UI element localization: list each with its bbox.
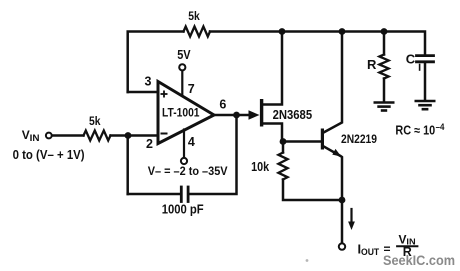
op-amp plus sign bbox=[161, 91, 168, 98]
node junction output bbox=[233, 112, 240, 119]
arrowhead op-amp output to gate bbox=[249, 110, 260, 119]
wire 10k bottom rail bbox=[283, 180, 342, 201]
wire C to ground bbox=[424, 62, 427, 101]
wire inverting node down bbox=[126, 136, 129, 195]
svg-text:–4: –4 bbox=[436, 122, 445, 133]
terminal IOUT bbox=[339, 243, 345, 249]
wire 10k top bbox=[282, 142, 285, 153]
svg-text:0 to (V– + 1V): 0 to (V– + 1V) bbox=[13, 148, 85, 162]
svg-text:5V: 5V bbox=[177, 47, 191, 62]
resistor R4 10k bbox=[278, 153, 287, 180]
terminal V- pin4 bbox=[181, 158, 187, 164]
wire cap bottom right bbox=[190, 115, 237, 194]
wire cap bottom left bbox=[128, 193, 180, 196]
svg-text:3: 3 bbox=[145, 75, 152, 89]
node junction emitter bottom bbox=[339, 197, 346, 204]
svg-text:RC ≈ 10: RC ≈ 10 bbox=[395, 124, 435, 138]
terminal 5V bbox=[179, 64, 185, 70]
wire pin3 input bbox=[128, 91, 158, 94]
svg-text:2N2219: 2N2219 bbox=[341, 132, 377, 146]
svg-text:1000 pF: 1000 pF bbox=[162, 202, 204, 217]
svg-text:2: 2 bbox=[146, 137, 153, 151]
svg-text:6: 6 bbox=[219, 97, 226, 111]
capacitor C2 polarity tick bbox=[419, 65, 421, 71]
capacitor C2 C bbox=[417, 56, 434, 62]
svg-text:OUT: OUT bbox=[361, 247, 380, 257]
ground GND1 (R) bbox=[374, 103, 395, 111]
resistor R3 R bbox=[379, 55, 388, 79]
op-amp U1 LT-1001 triangle bbox=[158, 82, 214, 144]
svg-text:SeekIC.com: SeekIC.com bbox=[383, 252, 455, 268]
wire emitter to output terminal bbox=[341, 200, 344, 243]
wire top rail right bbox=[210, 32, 425, 56]
svg-text:5k: 5k bbox=[188, 9, 200, 23]
wire supply pin7 bbox=[181, 71, 183, 96]
node junction source/10k/base bbox=[280, 138, 287, 145]
terminal VIN bbox=[46, 133, 52, 139]
arrow IOUT current bbox=[350, 209, 352, 224]
transistor Q2 2N2219 base bar bbox=[321, 129, 324, 150]
resistor R1 5k feedback bbox=[184, 27, 211, 37]
wire op-amp output bbox=[213, 114, 251, 117]
svg-text:7: 7 bbox=[188, 82, 195, 96]
svg-text:V– = –2 to –35V: V– = –2 to –35V bbox=[148, 164, 228, 178]
wire base Q2 bbox=[283, 140, 321, 143]
wire VIN to resistor bbox=[52, 134, 83, 137]
node junction drain top bbox=[279, 28, 286, 35]
svg-text:5k: 5k bbox=[89, 114, 101, 128]
transistor Q1 2N3685 drain wire bbox=[263, 32, 282, 105]
label IOUT formula bbox=[358, 232, 419, 259]
speck artifact bbox=[306, 259, 309, 262]
transistor Q2 emitter arrowhead bbox=[332, 149, 341, 157]
svg-text:C: C bbox=[406, 52, 416, 67]
wire top rail left bbox=[128, 32, 184, 93]
svg-text:2N3685: 2N3685 bbox=[273, 108, 313, 122]
transistor Q1 2N3685 source wire bbox=[263, 124, 282, 142]
svg-text:R: R bbox=[367, 57, 377, 72]
transistor Q2 2N2219 collector wire bbox=[323, 32, 342, 134]
resistor R3 R wire top bbox=[383, 32, 386, 55]
ground GND2 (C) bbox=[415, 101, 436, 109]
arrowhead IOUT bbox=[348, 222, 355, 231]
node junction collector top bbox=[339, 28, 346, 35]
transistor Q2 2N2219 emitter wire bbox=[323, 146, 342, 200]
wire R to ground bbox=[383, 79, 386, 103]
transistor Q1 2N3685 gate bar bbox=[260, 99, 263, 127]
op-amp minus sign bbox=[161, 133, 168, 135]
node junction R top bbox=[381, 28, 388, 35]
svg-text:10k: 10k bbox=[251, 160, 269, 174]
wire pin4 down bbox=[183, 130, 185, 158]
svg-text:V: V bbox=[22, 128, 30, 142]
wire resistor to pin2 bbox=[111, 134, 159, 137]
svg-text:4: 4 bbox=[188, 135, 195, 149]
capacitor C1 1000pF bbox=[181, 187, 188, 202]
svg-text:LT-1001: LT-1001 bbox=[162, 107, 200, 119]
node junction input bbox=[125, 132, 132, 139]
svg-text:IN: IN bbox=[30, 133, 40, 143]
resistor R2 5k input bbox=[84, 131, 111, 141]
